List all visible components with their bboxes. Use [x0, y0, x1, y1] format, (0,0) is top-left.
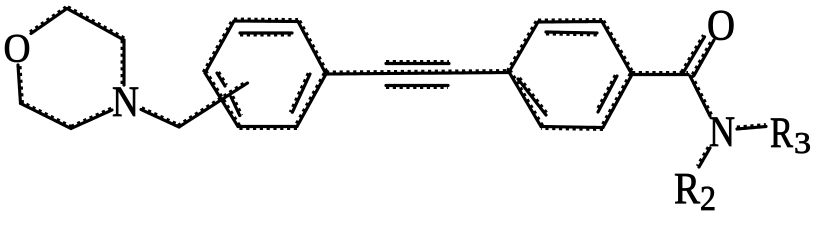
ring1 top edge — [234, 20, 298, 22]
ring1 bottom edge — [238, 127, 297, 128]
bond ring2 to carbonyl C — [632, 73, 688, 74]
svg-text:O: O — [707, 3, 735, 50]
bond morpholine apex to top-right vertex — [67, 8, 125, 41]
ring2 upper-right edge — [602, 21, 633, 75]
bond O to morpholine apex — [30, 8, 67, 34]
ring1 lower-left inner double-bond lower dash — [231, 97, 241, 117]
carbonyl C=O double bond line 2 — [693, 40, 714, 76]
bond N to R2 — [698, 147, 710, 167]
bond carbonyl C to amide N — [690, 76, 711, 117]
ring2 upper-left edge — [508, 21, 538, 72]
alkyne main bond line — [326, 71, 509, 74]
svg-text:R: R — [770, 110, 793, 157]
svg-text:2: 2 — [700, 179, 716, 218]
svg-text:3: 3 — [794, 125, 811, 160]
ring1 upper-right edge — [298, 21, 327, 74]
ring1 lower-left inner double-bond upper dash — [217, 72, 226, 86]
bond N to R3 — [737, 125, 766, 129]
bond CH2 to ring1 (variable attachment, crosses ring edge) — [178, 82, 247, 127]
ring2 bottom edge — [541, 127, 603, 129]
svg-text:O: O — [4, 26, 31, 71]
bond morpholine N to bottom vertex — [71, 109, 113, 129]
ring1 lower-right edge — [296, 74, 326, 127]
bond N to CH2 — [141, 109, 180, 128]
carbonyl C=O double bond line 1 — [682, 35, 705, 73]
bond morpholine bottom-left vertex to O — [18, 65, 22, 104]
ring1 lower-right inner double-bond line — [291, 74, 310, 114]
ring1 lower-left edge — [205, 72, 239, 126]
svg-text:N: N — [709, 109, 735, 156]
ring1 top inner double-bond line — [240, 33, 292, 34]
bond morpholine bottom vertex to bottom-left vertex — [21, 102, 72, 128]
ring2 lower-right inner double-bond line — [597, 76, 617, 113]
ring2 lower-left edge — [509, 71, 542, 126]
bond morpholine top-right vertex to N — [123, 40, 124, 85]
ring2 lower-right edge — [602, 74, 632, 128]
ring2 top edge — [538, 20, 602, 22]
ring1 upper-left edge — [204, 21, 234, 74]
svg-text:R: R — [674, 164, 701, 213]
ring2 top inner double-bond line — [546, 32, 597, 34]
alkyne upper parallel line — [386, 62, 449, 63]
svg-text:N: N — [112, 79, 139, 126]
ring2 lower-left inner double-bond line — [518, 78, 547, 115]
alkyne lower parallel line — [386, 86, 448, 87]
